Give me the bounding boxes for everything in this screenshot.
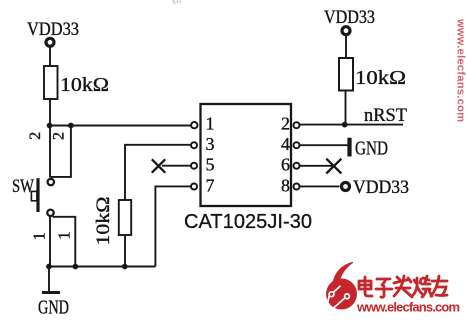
svg-text:6: 6 [281,155,290,175]
svg-text:7: 7 [206,175,215,195]
svg-text:www.elecfans.com: www.elecfans.com [356,300,460,315]
svg-text:2: 2 [50,132,67,140]
svg-text:10kΩ: 10kΩ [60,75,109,96]
svg-text:VDD33: VDD33 [353,177,409,198]
svg-text:1: 1 [54,231,73,240]
svg-text:SW: SW [12,176,34,197]
svg-text:10kΩ: 10kΩ [93,197,114,246]
svg-text:2: 2 [281,114,290,134]
svg-text:2: 2 [27,132,44,140]
svg-text:4: 4 [281,134,290,154]
svg-text:VDD33: VDD33 [324,8,375,28]
svg-text:GND: GND [355,138,388,160]
svg-text:GND: GND [38,297,69,319]
svg-text:5: 5 [206,155,215,175]
svg-text:nRST: nRST [364,105,407,126]
svg-text:1: 1 [206,114,215,134]
svg-text:3: 3 [206,134,215,154]
svg-text:10kΩ: 10kΩ [355,68,406,89]
svg-text:8: 8 [281,175,290,195]
svg-text:1: 1 [29,232,48,241]
svg-text:www.elecfans.com: www.elecfans.com [455,18,467,122]
svg-text:CAT1025JI-30: CAT1025JI-30 [184,211,312,233]
svg-text:VDD33: VDD33 [27,20,79,40]
